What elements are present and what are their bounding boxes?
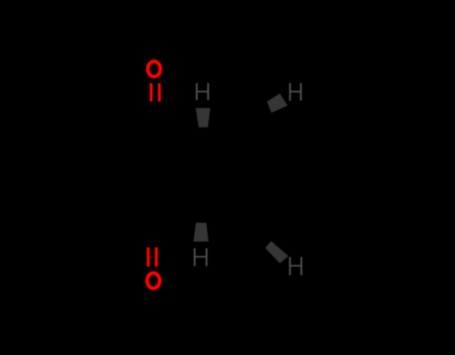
H label (top-right stereocenter): [289, 83, 302, 101]
wedge bond to H (top-left): [196, 108, 211, 127]
double bond C=O (bottom): [147, 247, 158, 266]
wedge bond to H (top-right): [267, 93, 288, 112]
H label (bottom-left stereocenter): [194, 248, 208, 266]
double bond C=O (top): [150, 83, 161, 101]
H label (bottom-right stereocenter): [289, 257, 302, 275]
wedge bond to H (bottom-left): [193, 223, 208, 242]
oxygen O (top ketone): [148, 61, 161, 76]
oxygen O (bottom ketone): [147, 273, 160, 288]
wedge bond to H (bottom-right): [265, 241, 288, 263]
H label (top-left stereocenter): [196, 83, 209, 100]
